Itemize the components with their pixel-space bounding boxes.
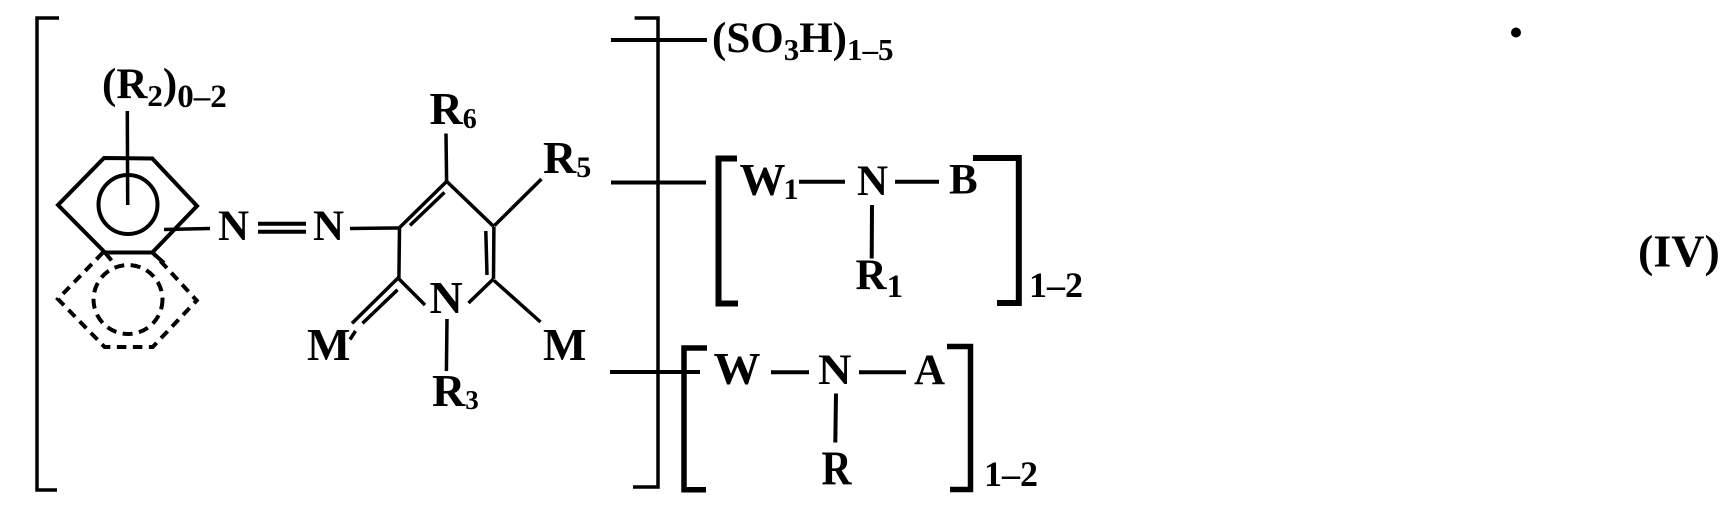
svg-text:N: N [218, 203, 249, 250]
svg-text:1–2: 1–2 [984, 454, 1038, 494]
svg-text:R: R [822, 441, 853, 496]
pyridine top-right edge [447, 181, 494, 226]
svg-text:N: N [313, 203, 344, 250]
wire to W1 group [611, 181, 706, 185]
bond ring to azo N [164, 229, 210, 230]
benzene ring (solid hexagon) [58, 158, 197, 253]
svg-text:B: B [949, 157, 978, 204]
svg-text:A: A [914, 347, 945, 394]
dashed inner circle [94, 265, 163, 334]
bond N-A [859, 370, 906, 374]
inner bracket ] of W group [947, 347, 971, 490]
bond N-R [833, 394, 838, 443]
overshoot tick left fused vertex [105, 253, 112, 261]
bond W1-N [799, 180, 845, 184]
bond R6 [444, 134, 448, 182]
pyridine bottom-left edge [399, 279, 425, 305]
svg-text:M: M [307, 319, 350, 370]
svg-text:W: W [714, 343, 761, 394]
pyridine right inner double bond [486, 231, 487, 275]
dashed fused ring [58, 253, 197, 348]
pyridine top-left edge [400, 181, 447, 227]
azo double bond [258, 222, 306, 226]
right outer bracket [633, 18, 658, 487]
left outer bracket [37, 18, 59, 490]
overshoot tick right fused vertex [152, 253, 164, 264]
inner bracket ] of W1 group [973, 158, 1019, 303]
dot artifact [1511, 28, 1521, 38]
pyridine top-left inner double bond [410, 192, 445, 225]
inner bracket [ of W group [684, 348, 707, 490]
bond N-B [895, 180, 939, 184]
svg-text:N: N [430, 272, 463, 323]
svg-text:(IV): (IV) [1638, 226, 1720, 277]
bond N-R1 [870, 205, 874, 259]
M prime tick [350, 331, 356, 340]
svg-text:1–2: 1–2 [1029, 265, 1083, 305]
bond azo to pyridine [350, 226, 399, 230]
benzene inner circle [99, 175, 158, 234]
bond M [494, 281, 541, 323]
wire to W group [610, 370, 700, 374]
wire to (SO3H) [611, 38, 707, 42]
svg-text:N: N [857, 158, 888, 205]
svg-text:M: M [543, 319, 586, 370]
svg-text:N: N [818, 347, 852, 394]
M' exocyclic double bond [352, 277, 399, 323]
wire (R2) to ring center [126, 111, 130, 205]
pyridine bottom-right edge [469, 279, 494, 303]
inner bracket [ of W1 group [719, 159, 739, 304]
bond R5 [495, 179, 542, 226]
bond W-N [771, 370, 809, 374]
pyridine ring left edge [397, 228, 401, 279]
pyridine right edge [492, 227, 496, 279]
bond N-R3 [445, 319, 449, 371]
